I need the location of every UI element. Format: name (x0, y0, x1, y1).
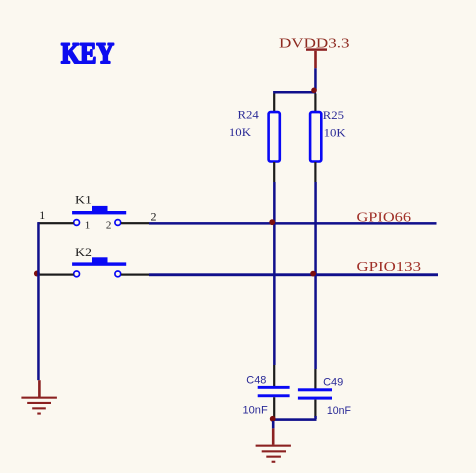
ground symbol right bar2 (262, 450, 286, 452)
resistor R24 (269, 112, 280, 161)
pin: R24 top pin (black) (273, 94, 275, 112)
junction dot K2 net at R25 column (310, 271, 316, 277)
svg-text:1: 1 (39, 208, 45, 222)
wire: C49 bottom corner vertical (314, 416, 317, 419)
pin: K1 right pin (black) (121, 222, 149, 224)
pin: R24 bottom pin (black) (273, 162, 275, 182)
ground stub right (red) (272, 428, 275, 444)
svg-text:10K: 10K (324, 126, 346, 140)
capacitor C49 top plate (298, 388, 332, 391)
switch K1 bar (72, 211, 126, 214)
ground symbol right bar3 (266, 456, 281, 458)
pin: K2 right pin (black) (121, 274, 149, 276)
pin: K1 left pin (black) (38, 222, 74, 224)
switch K2 actuator bump (92, 257, 108, 262)
wire: left column vertical (R24 to C48) (273, 182, 276, 365)
wire: left vertical (K1/K2 to ground) (37, 222, 40, 380)
power pin stub (red) (314, 51, 317, 68)
junction dot cap ground node (270, 416, 276, 422)
pin: R25 bottom pin (black) (314, 162, 316, 182)
wire: K2 net GPIO133 horizontal (149, 273, 438, 276)
svg-text:1: 1 (85, 220, 91, 232)
switch K1 left contact circle (74, 220, 80, 226)
switch K2 left contact circle (74, 271, 80, 277)
ground stub left (red) (38, 380, 41, 397)
capacitor C48 top plate (258, 386, 290, 389)
switch K2 bar (72, 262, 126, 265)
wire: stub below cap junction (272, 421, 275, 429)
svg-text:10nF: 10nF (243, 405, 268, 417)
ground symbol left bar3 (32, 407, 46, 409)
ground symbol left bar2 (27, 402, 51, 404)
pin: R25 top pin (black) (314, 94, 316, 112)
junction dot K2 net at left vertical wire (34, 271, 40, 277)
capacitor C49 bottom plate (298, 397, 332, 400)
svg-text:R25: R25 (323, 108, 344, 122)
switch K1 right contact circle (115, 220, 121, 226)
svg-text:C48: C48 (246, 374, 266, 386)
switch K2 right contact circle (115, 271, 121, 277)
wire: right column vertical (R25 to C49) (314, 182, 317, 369)
svg-text:KEY: KEY (61, 37, 114, 70)
ground symbol right bar1 (256, 445, 291, 447)
ground symbol left bar4 (37, 413, 41, 415)
wire: horizontal top between resistor pins (273, 91, 316, 94)
svg-text:C49: C49 (323, 376, 343, 388)
pin: K2 left pin (black) (38, 274, 74, 276)
svg-text:K2: K2 (75, 245, 92, 259)
switch K1 actuator bump (92, 206, 108, 211)
svg-text:GPIO133: GPIO133 (357, 260, 422, 275)
svg-text:GPIO66: GPIO66 (357, 210, 412, 225)
svg-text:K1: K1 (75, 192, 92, 206)
svg-text:10nF: 10nF (327, 405, 351, 417)
wire: K1 net GPIO66 horizontal (149, 222, 437, 225)
svg-text:R24: R24 (238, 108, 259, 122)
resistor R25 (310, 112, 321, 161)
svg-text:2: 2 (106, 220, 112, 232)
ground symbol right bar4 (272, 461, 276, 463)
svg-text:10K: 10K (229, 125, 251, 139)
wire: cap bottoms horizontal (272, 418, 317, 421)
pin: C48 top pin (black) (273, 365, 275, 386)
capacitor C48 bottom plate (258, 394, 290, 397)
ground symbol left bar1 (21, 397, 57, 399)
junction dot K1 net at R24 column (269, 219, 275, 225)
pin: C49 bottom pin (black) (314, 400, 316, 418)
pin: C49 top pin (black) (314, 369, 316, 389)
power bar symbol DVDD (306, 48, 327, 50)
junction dot at DVDD split (311, 88, 317, 94)
pin: C48 bottom pin (black) (273, 397, 275, 418)
svg-text:2: 2 (151, 210, 157, 224)
wire: DVDD vertical to junction (314, 68, 317, 90)
